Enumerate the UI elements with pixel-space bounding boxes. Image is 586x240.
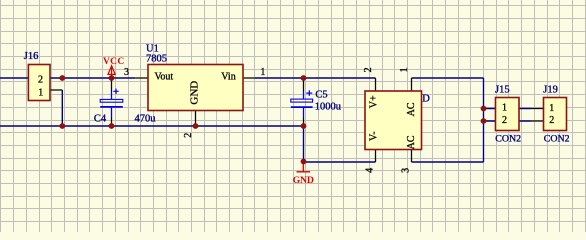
svg-text:1: 1 bbox=[260, 67, 265, 78]
svg-text:AC: AC bbox=[406, 102, 417, 116]
junction at GND node bbox=[301, 159, 307, 165]
bridge rectifier D body bbox=[365, 91, 422, 150]
wire top-left net from left edge to U1 pin 3 bbox=[0, 77, 135, 79]
svg-text:CON2: CON2 bbox=[495, 133, 521, 144]
pin C4 bottom lead bbox=[111, 108, 113, 126]
pin D-4 lead bbox=[375, 150, 377, 163]
wire J15 pin 1 row bbox=[484, 108, 531, 110]
svg-text:7805: 7805 bbox=[146, 54, 167, 65]
svg-text:1: 1 bbox=[399, 67, 410, 72]
pin C4 top lead bbox=[111, 78, 113, 99]
svg-text:1000u: 1000u bbox=[315, 102, 342, 113]
junction at U1 pin2 on ground net bbox=[193, 123, 199, 129]
junction at J15 pin1 bbox=[481, 106, 487, 112]
pin U1-1 lead bbox=[243, 77, 255, 79]
regulator U1 body bbox=[148, 65, 243, 111]
connector J15 body bbox=[496, 98, 520, 131]
junction at C4 bottom bbox=[109, 123, 115, 129]
capacitor C5 bbox=[291, 90, 313, 107]
svg-text:GND: GND bbox=[293, 175, 314, 186]
power symbol VCC bbox=[103, 57, 124, 78]
svg-text:AC: AC bbox=[406, 135, 417, 149]
svg-text:V+: V+ bbox=[368, 95, 379, 108]
svg-text:Vin: Vin bbox=[221, 72, 235, 83]
svg-text:Vout: Vout bbox=[155, 72, 174, 83]
wire from right vertical to bridge pin 3 bbox=[412, 161, 484, 163]
junction at VCC / C4 top bbox=[109, 75, 115, 81]
pin C5 top lead bbox=[303, 78, 305, 99]
svg-text:D: D bbox=[422, 93, 430, 104]
svg-text:1: 1 bbox=[38, 87, 43, 98]
junction at C5 bottom bbox=[301, 123, 307, 129]
pin J19-2 lead bbox=[531, 120, 544, 122]
svg-text:C5: C5 bbox=[315, 90, 327, 101]
svg-text:3: 3 bbox=[124, 67, 129, 78]
connector J16 body bbox=[28, 65, 50, 101]
junction at J15 pin2 bbox=[481, 118, 487, 124]
svg-text:2: 2 bbox=[502, 115, 507, 126]
svg-text:470u: 470u bbox=[135, 113, 157, 124]
svg-text:VCC: VCC bbox=[103, 57, 124, 67]
wire J15 pin 2 row bbox=[484, 120, 531, 122]
wire right vertical bus bbox=[483, 78, 485, 162]
svg-text:1: 1 bbox=[502, 103, 507, 114]
junction at J16 pin2 net bbox=[59, 75, 65, 81]
svg-text:2: 2 bbox=[38, 75, 43, 86]
svg-text:J16: J16 bbox=[24, 51, 39, 62]
capacitor C4 bbox=[100, 89, 123, 107]
svg-text:2: 2 bbox=[549, 115, 554, 126]
pin U1-2 lead bbox=[195, 111, 197, 127]
svg-text:CON2: CON2 bbox=[544, 133, 570, 144]
wire from bridge pin 1 to right vertical bbox=[412, 77, 484, 79]
wire bottom ground net from left edge to C5 bbox=[0, 125, 304, 127]
wire from GND node to bridge pin 4 bbox=[304, 161, 376, 163]
svg-text:3: 3 bbox=[401, 168, 412, 173]
pin D-1 lead bbox=[411, 78, 413, 91]
junction at C5 top bbox=[301, 75, 307, 81]
svg-text:GND: GND bbox=[189, 81, 201, 105]
svg-text:C4: C4 bbox=[94, 114, 107, 125]
wire from U1 pin 1 to bridge pin 2 bbox=[255, 77, 376, 79]
wire vertical C5 bottom to GND node bbox=[303, 126, 305, 162]
pin U1-3 lead bbox=[135, 77, 148, 79]
power symbol GND bbox=[293, 162, 314, 186]
wire J16 pin1 vertical drop bbox=[61, 90, 63, 126]
svg-text:J19: J19 bbox=[543, 84, 558, 95]
pin D-2 lead bbox=[375, 78, 377, 91]
connector J19 body bbox=[544, 98, 567, 131]
pin J19-1 lead bbox=[531, 108, 544, 110]
junction at J16 drop on ground net bbox=[59, 123, 65, 129]
svg-text:2: 2 bbox=[363, 67, 374, 72]
svg-text:J15: J15 bbox=[495, 84, 510, 95]
pin D-3 lead bbox=[411, 150, 413, 163]
svg-text:V-: V- bbox=[368, 131, 379, 141]
svg-text:4: 4 bbox=[365, 168, 376, 173]
pin J16-1 lead bbox=[50, 89, 62, 91]
svg-text:1: 1 bbox=[549, 103, 554, 114]
pin C5 bottom lead bbox=[303, 108, 305, 126]
svg-text:2: 2 bbox=[183, 133, 194, 138]
